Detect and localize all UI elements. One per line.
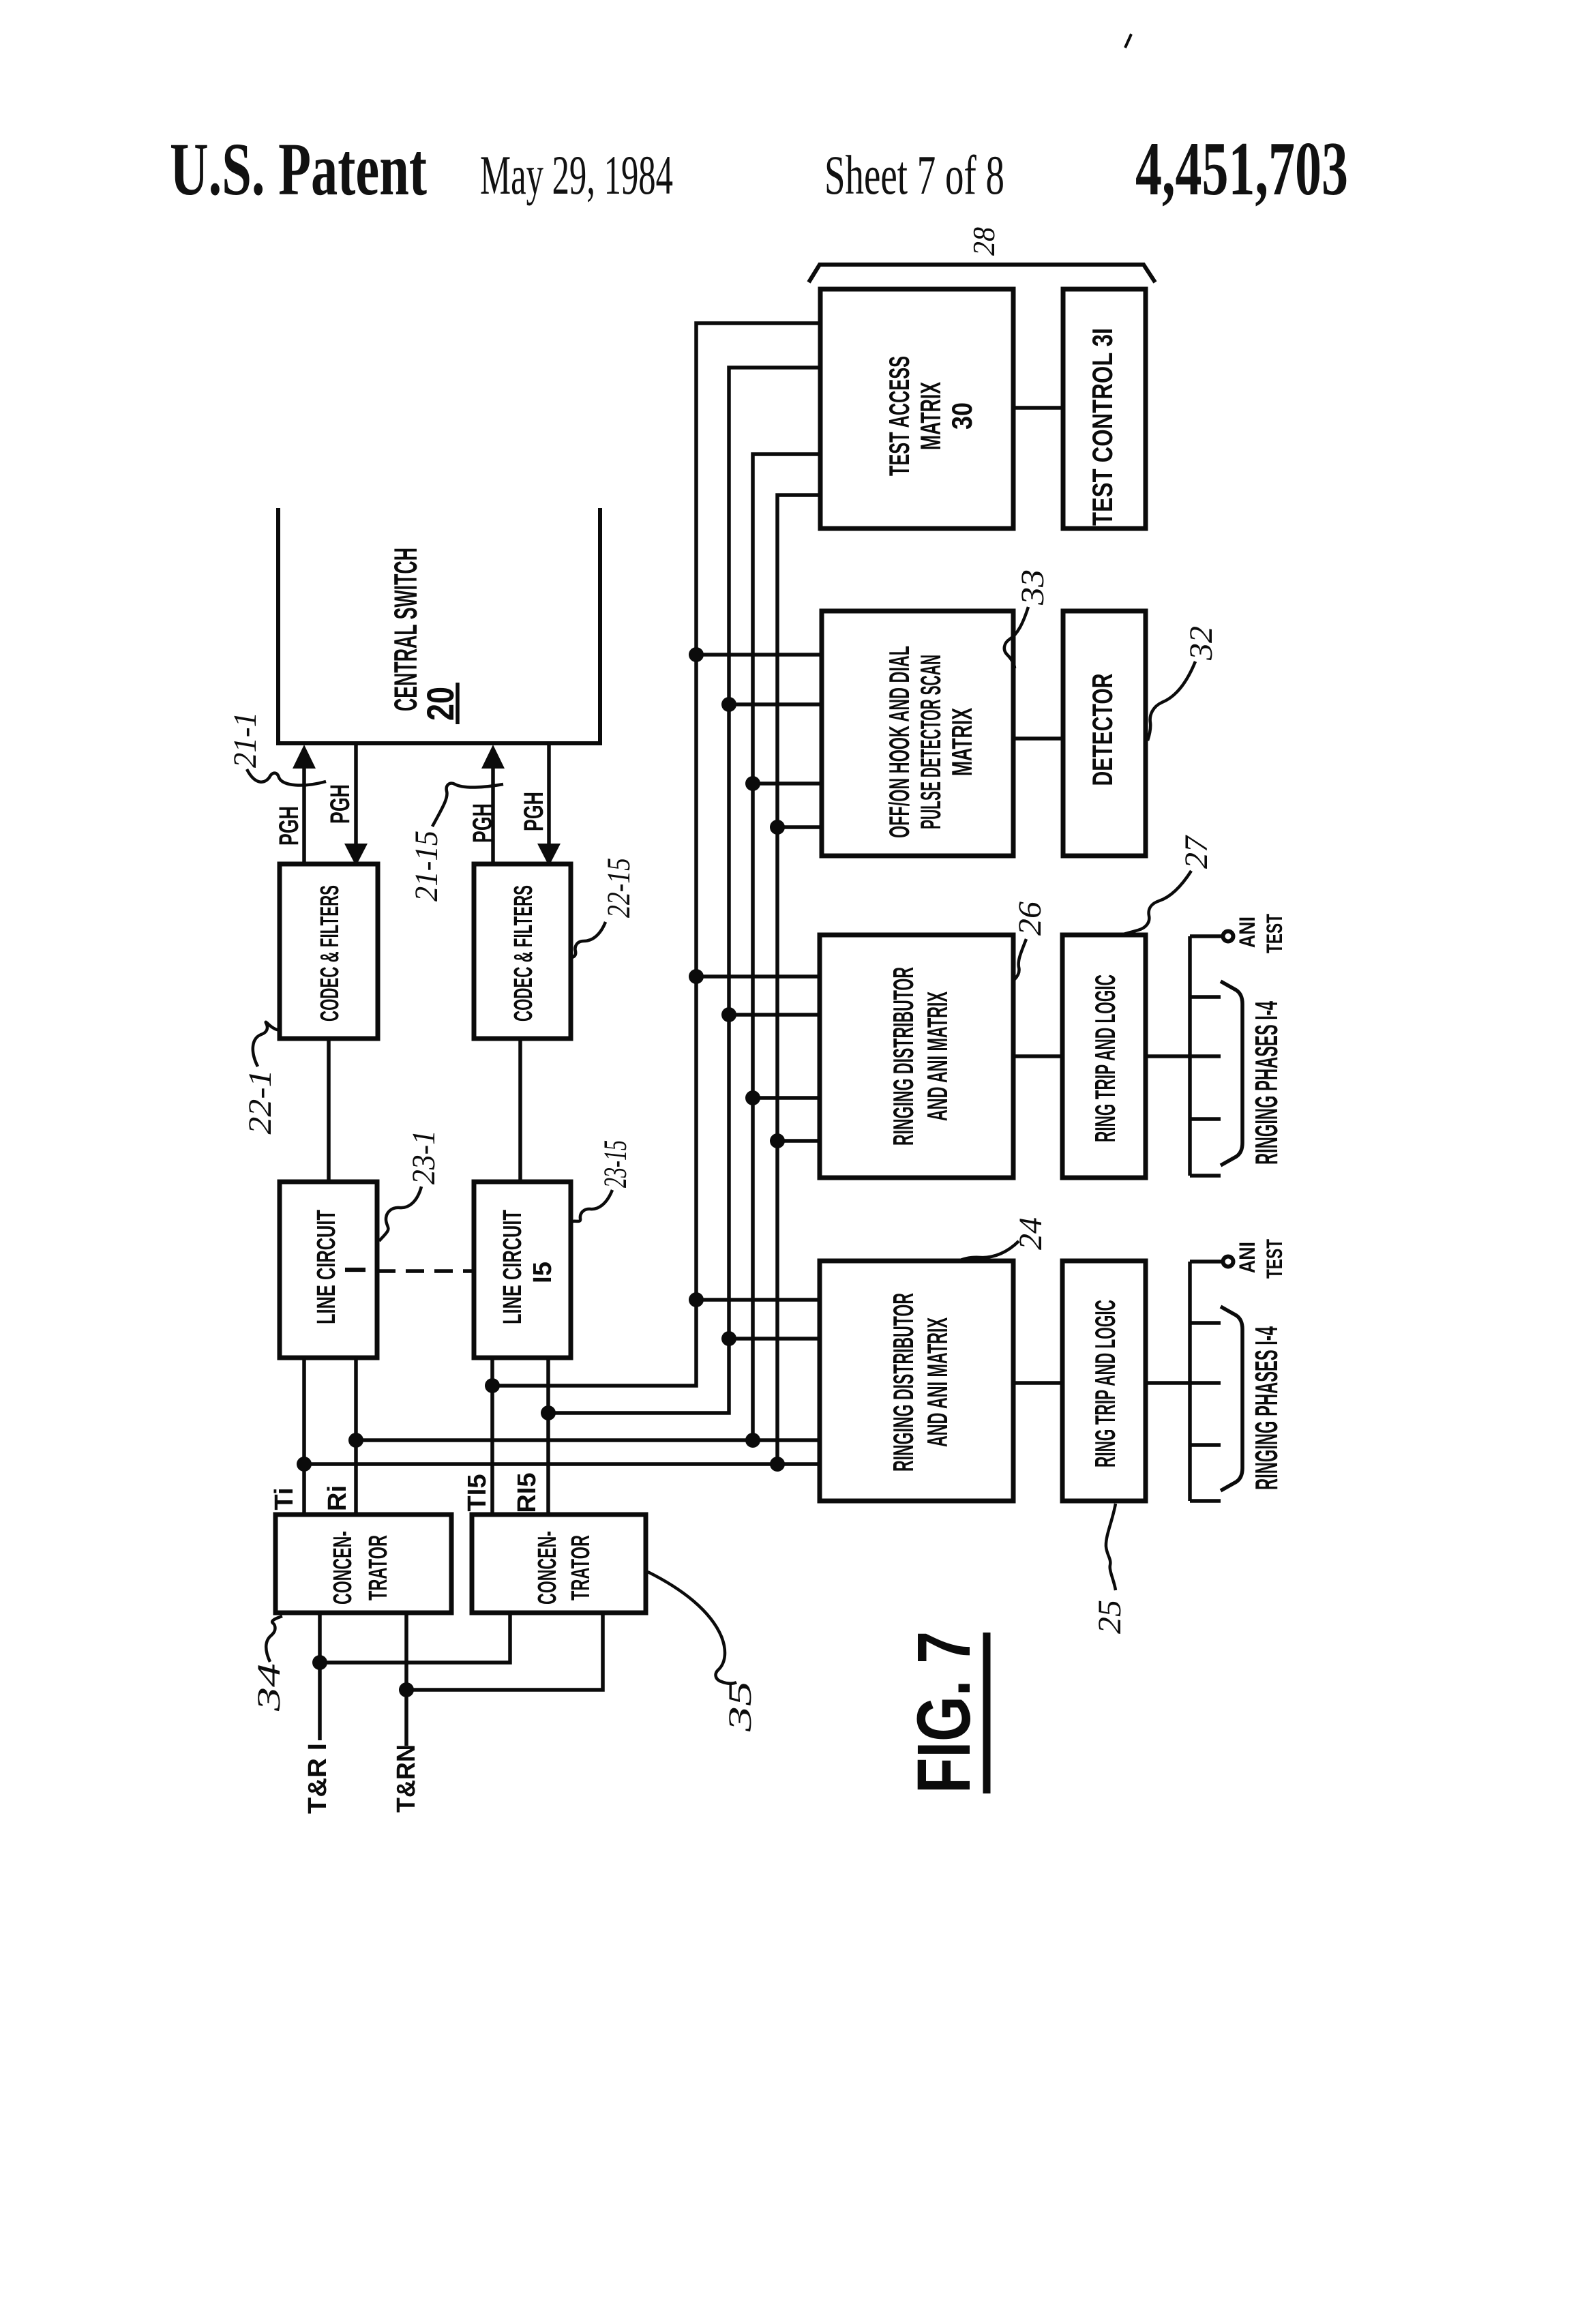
- wire bus1 to ring matrix 26: [696, 974, 820, 979]
- svg-text:AND ANI MATRIX: AND ANI MATRIX: [921, 992, 953, 1121]
- svg-text:OFF/ON HOOK AND DIAL: OFF/ON HOOK AND DIAL: [883, 646, 915, 838]
- svg-text:TEST CONTROL 3I: TEST CONTROL 3I: [1086, 328, 1118, 526]
- wire conc2 out 2: [406, 1613, 603, 1690]
- junction dot bus3 foot: [745, 1433, 760, 1448]
- svg-text:25: 25: [1092, 1600, 1128, 1634]
- svg-text:DETECTOR: DETECTOR: [1086, 674, 1118, 786]
- svg-text:U.S. Patent: U.S. Patent: [170, 128, 427, 211]
- svg-text:20: 20: [419, 687, 462, 721]
- svg-text:T&RN: T&RN: [392, 1744, 421, 1813]
- wire: PGH down arrow 1 shaft: [354, 743, 358, 846]
- brace phases 1: [1221, 981, 1242, 1165]
- leader 27: [1122, 871, 1191, 935]
- svg-text:RINGING DISTRIBUTOR: RINGING DISTRIBUTOR: [887, 1293, 919, 1472]
- svg-text:23-15: 23-15: [597, 1140, 633, 1188]
- svg-text:May 29, 1984: May 29, 1984: [480, 144, 673, 206]
- ani test terminal 2: [1223, 1257, 1234, 1267]
- svg-text:I: I: [339, 1266, 372, 1274]
- wire TI5: [490, 1358, 494, 1515]
- phase stub 1-1: [1190, 995, 1221, 999]
- leader 25: [1106, 1504, 1116, 1590]
- svg-text:22-1: 22-1: [242, 1070, 278, 1135]
- phases group 2 vertical: [1188, 1262, 1192, 1501]
- svg-text:Ti: Ti: [270, 1487, 299, 1510]
- junction dot bus1 scan: [689, 647, 704, 662]
- svg-text:TRATOR: TRATOR: [567, 1535, 595, 1600]
- leader 21-1: [247, 769, 326, 786]
- svg-text:TRATOR: TRATOR: [364, 1535, 393, 1600]
- wire bus4 to scan matrix: [777, 825, 822, 829]
- junction dot bus4 scan: [770, 820, 785, 835]
- svg-text:RING TRIP AND LOGIC: RING TRIP AND LOGIC: [1089, 1300, 1121, 1468]
- junction dot bus3 rm26: [745, 1090, 760, 1105]
- svg-text:CONCEN-: CONCEN-: [329, 1531, 357, 1605]
- svg-text:32: 32: [1183, 626, 1219, 661]
- arrowhead down 2: [537, 844, 561, 866]
- concentrator box 35: [472, 1515, 646, 1613]
- wire bus2 to scan matrix: [729, 702, 822, 706]
- svg-text:Ri: Ri: [323, 1485, 352, 1511]
- wire tam to test control: [1013, 406, 1063, 410]
- wire codec1 to line circuit 1: [327, 1039, 331, 1182]
- wire rtl1 to phases: [1146, 1054, 1221, 1058]
- stray tick mark: [1125, 34, 1131, 48]
- junction dot conc out 2: [399, 1682, 414, 1697]
- wire Ri: [354, 1358, 358, 1515]
- junction dot bus4 foot: [770, 1457, 785, 1472]
- bus wire 4 (Ti net): [304, 495, 820, 1464]
- detector box 32: [1063, 611, 1146, 856]
- leader 21-15: [432, 784, 503, 826]
- wire bus4 to ring matrix 26: [777, 1139, 820, 1143]
- wire bus2 to ring matrix 26: [729, 1013, 820, 1017]
- ani test wire 1: [1190, 934, 1222, 938]
- bus wire 3 (Ri net): [356, 454, 820, 1440]
- svg-text:RINGING PHASES I-4: RINGING PHASES I-4: [1249, 1326, 1284, 1490]
- wire R15: [546, 1358, 550, 1515]
- line circuit 1 box 23-1: [280, 1182, 377, 1358]
- leader 33: [1004, 607, 1028, 668]
- junction dot bus3 scan: [745, 776, 760, 791]
- leader 24: [957, 1241, 1019, 1262]
- ring trip logic 2 box: [1062, 1261, 1146, 1501]
- svg-text:23-1: 23-1: [406, 1130, 442, 1185]
- wire rdam26 to rtl1: [1013, 1054, 1062, 1058]
- wire: PGH down arrow 2 shaft: [547, 743, 551, 846]
- junction dot Ri tap: [348, 1433, 363, 1448]
- wire rdam24 to rtl2: [1013, 1381, 1062, 1385]
- phase stub 2-1: [1190, 1321, 1221, 1325]
- dashed wire between line circuits: [377, 1269, 474, 1273]
- phase stub 1-4: [1190, 1174, 1221, 1178]
- svg-text:PGH: PGH: [274, 806, 304, 846]
- junction dot Ti tap: [297, 1457, 312, 1472]
- svg-text:MATRIX: MATRIX: [914, 382, 946, 450]
- codec & filters box 22-1: [280, 864, 378, 1039]
- leader 32: [1148, 661, 1195, 741]
- ani test wire 2: [1190, 1260, 1222, 1264]
- leader 22-1: [253, 1022, 281, 1067]
- junction dot bus1 rm26: [689, 969, 704, 984]
- svg-text:RING TRIP AND LOGIC: RING TRIP AND LOGIC: [1089, 974, 1121, 1142]
- svg-text:TI5: TI5: [463, 1474, 492, 1512]
- wire: PGH up arrow 2 shaft: [491, 768, 495, 864]
- svg-text:LINE CIRCUIT: LINE CIRCUIT: [498, 1210, 527, 1324]
- svg-text:21-1: 21-1: [227, 712, 263, 768]
- wire Ti: [302, 1358, 306, 1515]
- codec & filters box 22-15: [474, 864, 571, 1039]
- svg-text:TEST: TEST: [1262, 914, 1287, 953]
- svg-text:CODEC & FILTERS: CODEC & FILTERS: [509, 885, 538, 1022]
- junction dot TI5 tap: [485, 1378, 500, 1393]
- wire bus2 to ring matrix 24: [729, 1337, 820, 1341]
- svg-text:35: 35: [722, 1681, 758, 1733]
- svg-text:LINE CIRCUIT: LINE CIRCUIT: [312, 1210, 341, 1324]
- svg-text:27: 27: [1178, 835, 1214, 869]
- svg-text:4,451,703: 4,451,703: [1135, 127, 1348, 211]
- ringing distributor matrix 26 box: [820, 935, 1013, 1178]
- wire T&RN drop: [404, 1613, 408, 1746]
- ani test terminal 1: [1223, 932, 1234, 942]
- svg-text:PULSE DETECTOR SCAN: PULSE DETECTOR SCAN: [914, 655, 946, 829]
- wire conc2 out 1: [320, 1613, 510, 1663]
- leader 23-1: [379, 1187, 421, 1241]
- bus wire 1 (TI5 net): [492, 323, 820, 1386]
- svg-text:MATRIX: MATRIX: [946, 708, 978, 776]
- svg-text:PGH: PGH: [519, 792, 549, 831]
- svg-text:Sheet 7 of 8: Sheet 7 of 8: [824, 144, 1004, 206]
- wire bus1 to scan matrix: [696, 653, 822, 657]
- svg-text:RINGING PHASES I-4: RINGING PHASES I-4: [1249, 1001, 1284, 1165]
- leader 22-15: [572, 922, 606, 957]
- svg-text:ANI: ANI: [1235, 1242, 1259, 1273]
- ring trip logic 1 box: [1062, 935, 1146, 1178]
- svg-text:AND ANI MATRIX: AND ANI MATRIX: [921, 1317, 953, 1447]
- svg-text:30: 30: [946, 402, 978, 430]
- junction dot conc out 1: [312, 1655, 327, 1670]
- bus wire 2 (R15 net): [548, 368, 820, 1413]
- leader 23-15: [572, 1190, 612, 1221]
- junction dot bus1 rm24: [689, 1292, 704, 1307]
- svg-text:TEST ACCESS: TEST ACCESS: [883, 356, 915, 476]
- off/on hook scan matrix box 33: [822, 611, 1013, 856]
- phase stub 2-4: [1190, 1499, 1221, 1503]
- concentrator box 34: [275, 1515, 451, 1613]
- phase stub 1-3: [1190, 1117, 1221, 1121]
- brace phases 2: [1221, 1307, 1242, 1491]
- test access matrix 30 box: [820, 289, 1013, 528]
- junction dot bus2 rm24: [721, 1331, 736, 1346]
- svg-text:PGH: PGH: [325, 784, 355, 824]
- arrowhead up 1: [293, 745, 316, 769]
- wire rtl2 to phases: [1146, 1381, 1221, 1385]
- wire bus3 to scan matrix: [753, 781, 822, 786]
- wire bus1 to ring matrix 24: [696, 1298, 820, 1302]
- phase stub 2-3: [1190, 1443, 1221, 1447]
- wire bus3 to ring matrix 26: [753, 1096, 820, 1100]
- arrowhead down 1: [344, 844, 368, 866]
- leader 35: [648, 1572, 736, 1684]
- central switch 20 box (open top side): [278, 508, 600, 743]
- wire T&R1 drop: [318, 1613, 322, 1740]
- bracket 28: [809, 265, 1155, 282]
- line circuit 15 box 23-15: [474, 1182, 571, 1358]
- svg-text:33: 33: [1015, 569, 1051, 606]
- svg-text:CENTRAL SWITCH: CENTRAL SWITCH: [387, 548, 423, 711]
- underline of 20: [456, 683, 460, 724]
- svg-text:28: 28: [966, 227, 1001, 256]
- svg-text:FIG. 7: FIG. 7: [902, 1631, 986, 1793]
- svg-text:PGH: PGH: [468, 803, 498, 843]
- wire codec2 to line circuit 15: [518, 1039, 522, 1182]
- wire scan matrix to detector: [1013, 736, 1063, 741]
- svg-text:RINGING DISTRIBUTOR: RINGING DISTRIBUTOR: [887, 967, 919, 1146]
- phases group 1 vertical: [1188, 936, 1192, 1176]
- junction dot R15 tap: [541, 1405, 556, 1420]
- svg-text:34: 34: [251, 1663, 287, 1712]
- leader 26: [1015, 939, 1026, 979]
- FIG. 7 underline: [983, 1633, 991, 1793]
- junction dot bus2 rm26: [721, 1007, 736, 1022]
- svg-text:21-15: 21-15: [408, 831, 445, 902]
- svg-text:T&R I: T&R I: [303, 1743, 332, 1814]
- wire: PGH up arrow 1 shaft: [302, 768, 306, 864]
- svg-text:I5: I5: [528, 1262, 557, 1283]
- svg-text:TEST: TEST: [1262, 1239, 1287, 1279]
- junction dot bus2 scan: [721, 697, 736, 712]
- svg-text:CODEC & FILTERS: CODEC & FILTERS: [316, 885, 344, 1022]
- arrowhead up 2: [481, 745, 505, 769]
- svg-text:RI5: RI5: [513, 1472, 541, 1513]
- test control 31 box: [1063, 289, 1146, 528]
- junction dot bus4 rm26: [770, 1133, 785, 1148]
- svg-text:24: 24: [1013, 1217, 1049, 1250]
- svg-text:CONCEN-: CONCEN-: [533, 1531, 562, 1605]
- leader 34: [266, 1616, 282, 1662]
- ringing distributor matrix 24 box: [820, 1261, 1013, 1501]
- svg-text:22-15: 22-15: [601, 858, 637, 918]
- svg-text:ANI: ANI: [1235, 917, 1259, 948]
- svg-text:26: 26: [1012, 902, 1048, 936]
